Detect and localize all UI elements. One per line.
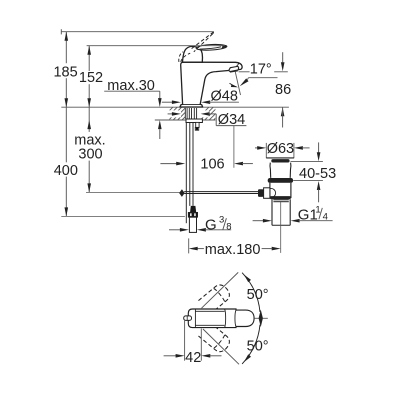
pop-up centerline bbox=[280, 202, 282, 253]
pull-rod clamp block bbox=[195, 122, 199, 130]
pop-up flange (black) bbox=[268, 178, 293, 183]
label 42 bbox=[185, 350, 201, 366]
dim max180 bbox=[189, 247, 281, 251]
deck top surface line bbox=[61, 106, 289, 108]
svg-text:17°: 17° bbox=[250, 61, 272, 77]
svg-text:50°: 50° bbox=[247, 287, 269, 303]
hose connector nut bbox=[188, 212, 197, 217]
86 upper arrow bbox=[281, 52, 285, 71]
40-53 ref line upper bbox=[291, 161, 323, 163]
arrow on arc upper bbox=[244, 274, 251, 282]
label O63 bbox=[267, 141, 294, 157]
label G3/8 bbox=[205, 215, 232, 234]
max180 left tick bbox=[188, 238, 190, 253]
O34 leader bbox=[208, 114, 246, 126]
centerline tick at handle end bbox=[254, 317, 267, 319]
17deg left arc bbox=[230, 83, 239, 87]
handle dome base bbox=[183, 46, 203, 62]
106 ext line bbox=[233, 126, 235, 168]
dim 106 bbox=[160, 162, 253, 166]
mounting shank lines bbox=[185, 108, 196, 119]
spout aerator (mousseur) bbox=[229, 66, 239, 72]
ref line second (spout grip level, 152 origin) bbox=[87, 45, 225, 47]
arrow down 152 bottom (deck) bbox=[87, 98, 91, 107]
svg-text:Ø48: Ø48 bbox=[211, 88, 238, 104]
rod junction joint bbox=[179, 189, 185, 197]
detail handle pin bbox=[184, 316, 192, 321]
spout end inner line bbox=[236, 63, 239, 67]
diamond arrowheads at centerline bbox=[259, 310, 263, 327]
svg-text:40-53: 40-53 bbox=[299, 166, 336, 182]
svg-text:4: 4 bbox=[323, 211, 328, 222]
label 152 bbox=[79, 70, 103, 86]
detail handle ghost rotated up (dashed) bbox=[198, 282, 232, 314]
arrow down max30 (deck top) bbox=[158, 98, 162, 107]
label 86 bbox=[275, 82, 291, 98]
label max.30 bbox=[107, 78, 155, 94]
deck hatch white mask for arrows bbox=[168, 110, 209, 117]
label 50deg lower bbox=[247, 339, 269, 355]
svg-text:400: 400 bbox=[54, 163, 78, 179]
arrow down 185 bottom (deck) bbox=[65, 98, 69, 107]
pop-up pull rod vertical bbox=[185, 122, 187, 223]
dim 185/400 vertical line x=66.3 bbox=[65, 32, 67, 217]
dim 40-53 arrows bbox=[317, 142, 321, 202]
label 400 bbox=[54, 163, 78, 179]
dim G3/8 arrows bbox=[169, 228, 231, 232]
handle raised ghost blade (dashed) bbox=[191, 32, 214, 52]
svg-text:152: 152 bbox=[79, 70, 103, 86]
pop-up ext lines (O63) bbox=[266, 143, 294, 158]
pop-up actuator ball socket bbox=[266, 188, 275, 197]
dim 42 bbox=[164, 354, 222, 358]
svg-text:300: 300 bbox=[78, 146, 102, 162]
faucet base flange line bbox=[181, 104, 201, 106]
supply hoses bbox=[190, 122, 193, 205]
svg-text:106: 106 bbox=[200, 157, 224, 173]
arrow up 185 top bbox=[65, 32, 69, 41]
svg-text:42: 42 bbox=[185, 350, 201, 366]
svg-text:1: 1 bbox=[315, 204, 320, 215]
pop-up bell neck bbox=[270, 163, 291, 178]
17deg right arrow from ref bbox=[240, 78, 249, 86]
50deg arc upper bbox=[242, 273, 260, 312]
17deg ref line2 bbox=[248, 77, 277, 79]
rod reference line left bbox=[86, 191, 180, 193]
handle raised ghost dome edge (dashed) bbox=[179, 52, 190, 62]
hose thread tube G3/8 bbox=[189, 217, 196, 232]
pop-up plug top line bbox=[266, 157, 294, 159]
deck hatch left bbox=[160, 107, 195, 120]
label 50deg upper bbox=[247, 287, 269, 303]
faucet body and spout outline bbox=[180, 62, 242, 107]
dim 152/max300 vertical line x=89.2 bbox=[88, 46, 90, 193]
max.30 leader underline + drop bbox=[104, 91, 160, 99]
label 106 bbox=[200, 157, 224, 173]
17deg aerator level line bbox=[239, 71, 288, 73]
42 ext lines bbox=[185, 321, 202, 361]
pop-up body bbox=[270, 183, 291, 198]
deck bottom line bbox=[155, 119, 216, 121]
arrow down max300 bottom bbox=[87, 183, 91, 192]
svg-text:max.180: max.180 bbox=[205, 242, 261, 258]
svg-text:8: 8 bbox=[226, 222, 231, 233]
arrow up max300 top (deck underside) bbox=[87, 120, 91, 129]
pop-up tail tube G1 1/4 bbox=[272, 199, 290, 225]
17deg axis line bbox=[235, 72, 240, 96]
label 185 bbox=[53, 65, 77, 81]
pop-up actuator knob (black) bbox=[258, 189, 264, 197]
arrow up max30 (deck bottom) bbox=[158, 120, 162, 129]
svg-text:Ø63: Ø63 bbox=[267, 141, 294, 157]
pop-up body bottom band (black) bbox=[270, 196, 291, 199]
dim O63 line+arrows bbox=[255, 146, 310, 150]
svg-text:3: 3 bbox=[219, 215, 224, 226]
label O48 bbox=[211, 88, 238, 104]
pop-up actuator stem bbox=[264, 188, 270, 199]
handle grip horn bbox=[196, 44, 227, 50]
svg-text:86: 86 bbox=[275, 82, 291, 98]
dim O48 bbox=[162, 100, 239, 104]
hose end taper (black) bbox=[190, 206, 196, 213]
50deg arc lower bbox=[242, 325, 260, 364]
horizontal pop-up rod bbox=[184, 192, 258, 194]
dim O34 arrows bbox=[168, 112, 210, 116]
detail handle solid (top view) bbox=[188, 309, 254, 328]
handle horn dark tip bbox=[221, 45, 227, 49]
ref line top (lever tip level, 185/400 origin) bbox=[61, 29, 214, 34]
svg-text:185: 185 bbox=[53, 65, 77, 81]
detail handle ghost rotated down (dashed) bbox=[198, 322, 232, 354]
40-53 ref line lower bbox=[293, 180, 323, 182]
label 17deg bbox=[250, 61, 272, 77]
handle horn inner line bbox=[200, 47, 222, 49]
arrow on arc lower bbox=[244, 354, 251, 362]
dim G1 1/4 arrows bbox=[253, 219, 333, 223]
max30 lower tail bbox=[159, 129, 161, 139]
mounting washer bar bbox=[186, 119, 202, 123]
pop-up plug lip (black) bbox=[271, 159, 289, 162]
arrow down 400 bottom bbox=[65, 207, 69, 216]
label O34 bbox=[218, 112, 245, 128]
label G1 1/4 bbox=[298, 204, 328, 223]
50deg radial line upper bbox=[202, 272, 239, 308]
50deg radial line lower bbox=[203, 329, 239, 364]
svg-text:Ø34: Ø34 bbox=[218, 112, 245, 128]
arrow up 152 top bbox=[87, 46, 91, 55]
ref line hose end level (400 bottom) bbox=[61, 215, 185, 217]
label 40-53 bbox=[299, 166, 336, 182]
svg-text:G: G bbox=[205, 217, 217, 234]
svg-text:50°: 50° bbox=[247, 339, 269, 355]
label max.180 bbox=[205, 242, 261, 258]
deck hatch right bbox=[196, 107, 226, 120]
pop-up tail step bbox=[273, 200, 288, 202]
label max.300 bbox=[74, 133, 105, 163]
86 lower arrow bbox=[281, 107, 285, 127]
